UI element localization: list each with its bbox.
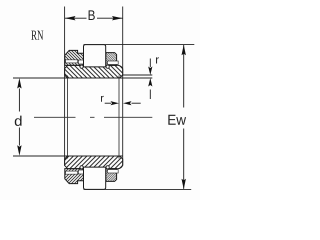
svg-text:r: r bbox=[155, 55, 159, 67]
Ew extension bottom bbox=[84, 188, 192, 190]
ring band upper bbox=[65, 65, 123, 78]
arrow Ew down bbox=[182, 179, 186, 190]
chamfer edge line right bbox=[118, 76, 120, 159]
svg-text:d: d bbox=[14, 113, 22, 129]
groove circle left upper bbox=[80, 65, 83, 68]
inner ring lower section (mirror) bbox=[65, 156, 123, 189]
arrow B left bbox=[65, 16, 76, 20]
arrow Ew up bbox=[182, 45, 186, 56]
bore line top with d extension bbox=[13, 77, 152, 79]
r vertical dim arrow down bbox=[149, 59, 151, 68]
arrow d up bbox=[17, 78, 21, 89]
svg-text:B: B bbox=[88, 7, 96, 23]
chamfer line right (r dim upper line) bbox=[123, 74, 153, 76]
centerline bbox=[34, 116, 152, 118]
arrow d down bbox=[17, 145, 21, 156]
r horizontal dim arrow left bbox=[132, 102, 141, 104]
roller upper bbox=[84, 45, 106, 67]
chamfer edge line left bbox=[67, 76, 69, 159]
left rib upper bbox=[65, 50, 84, 65]
r horizontal dim arrow right bbox=[105, 102, 111, 104]
svg-text:r: r bbox=[100, 93, 104, 105]
right rib upper bbox=[106, 53, 117, 66]
dimension Ew line bbox=[183, 45, 185, 189]
dimension B line bbox=[65, 17, 123, 19]
svg-text:Ew: Ew bbox=[167, 113, 186, 129]
face line left / B extension left bbox=[64, 7, 66, 166]
groove circle right upper bbox=[106, 65, 109, 68]
cage slot left upper bbox=[66, 60, 78, 63]
svg-text:RN: RN bbox=[31, 29, 44, 44]
bore line bottom with d extension bbox=[13, 155, 123, 157]
face line right / B extension right bbox=[122, 7, 124, 166]
inner ring upper section bbox=[65, 45, 123, 78]
r vertical dim arrow up bbox=[149, 90, 151, 100]
lip notch left upper bbox=[79, 60, 84, 64]
dimension d line bbox=[18, 89, 20, 146]
Ew extension top bbox=[84, 44, 195, 46]
arrow B right bbox=[112, 16, 123, 20]
cage slot right upper bbox=[108, 61, 119, 64]
